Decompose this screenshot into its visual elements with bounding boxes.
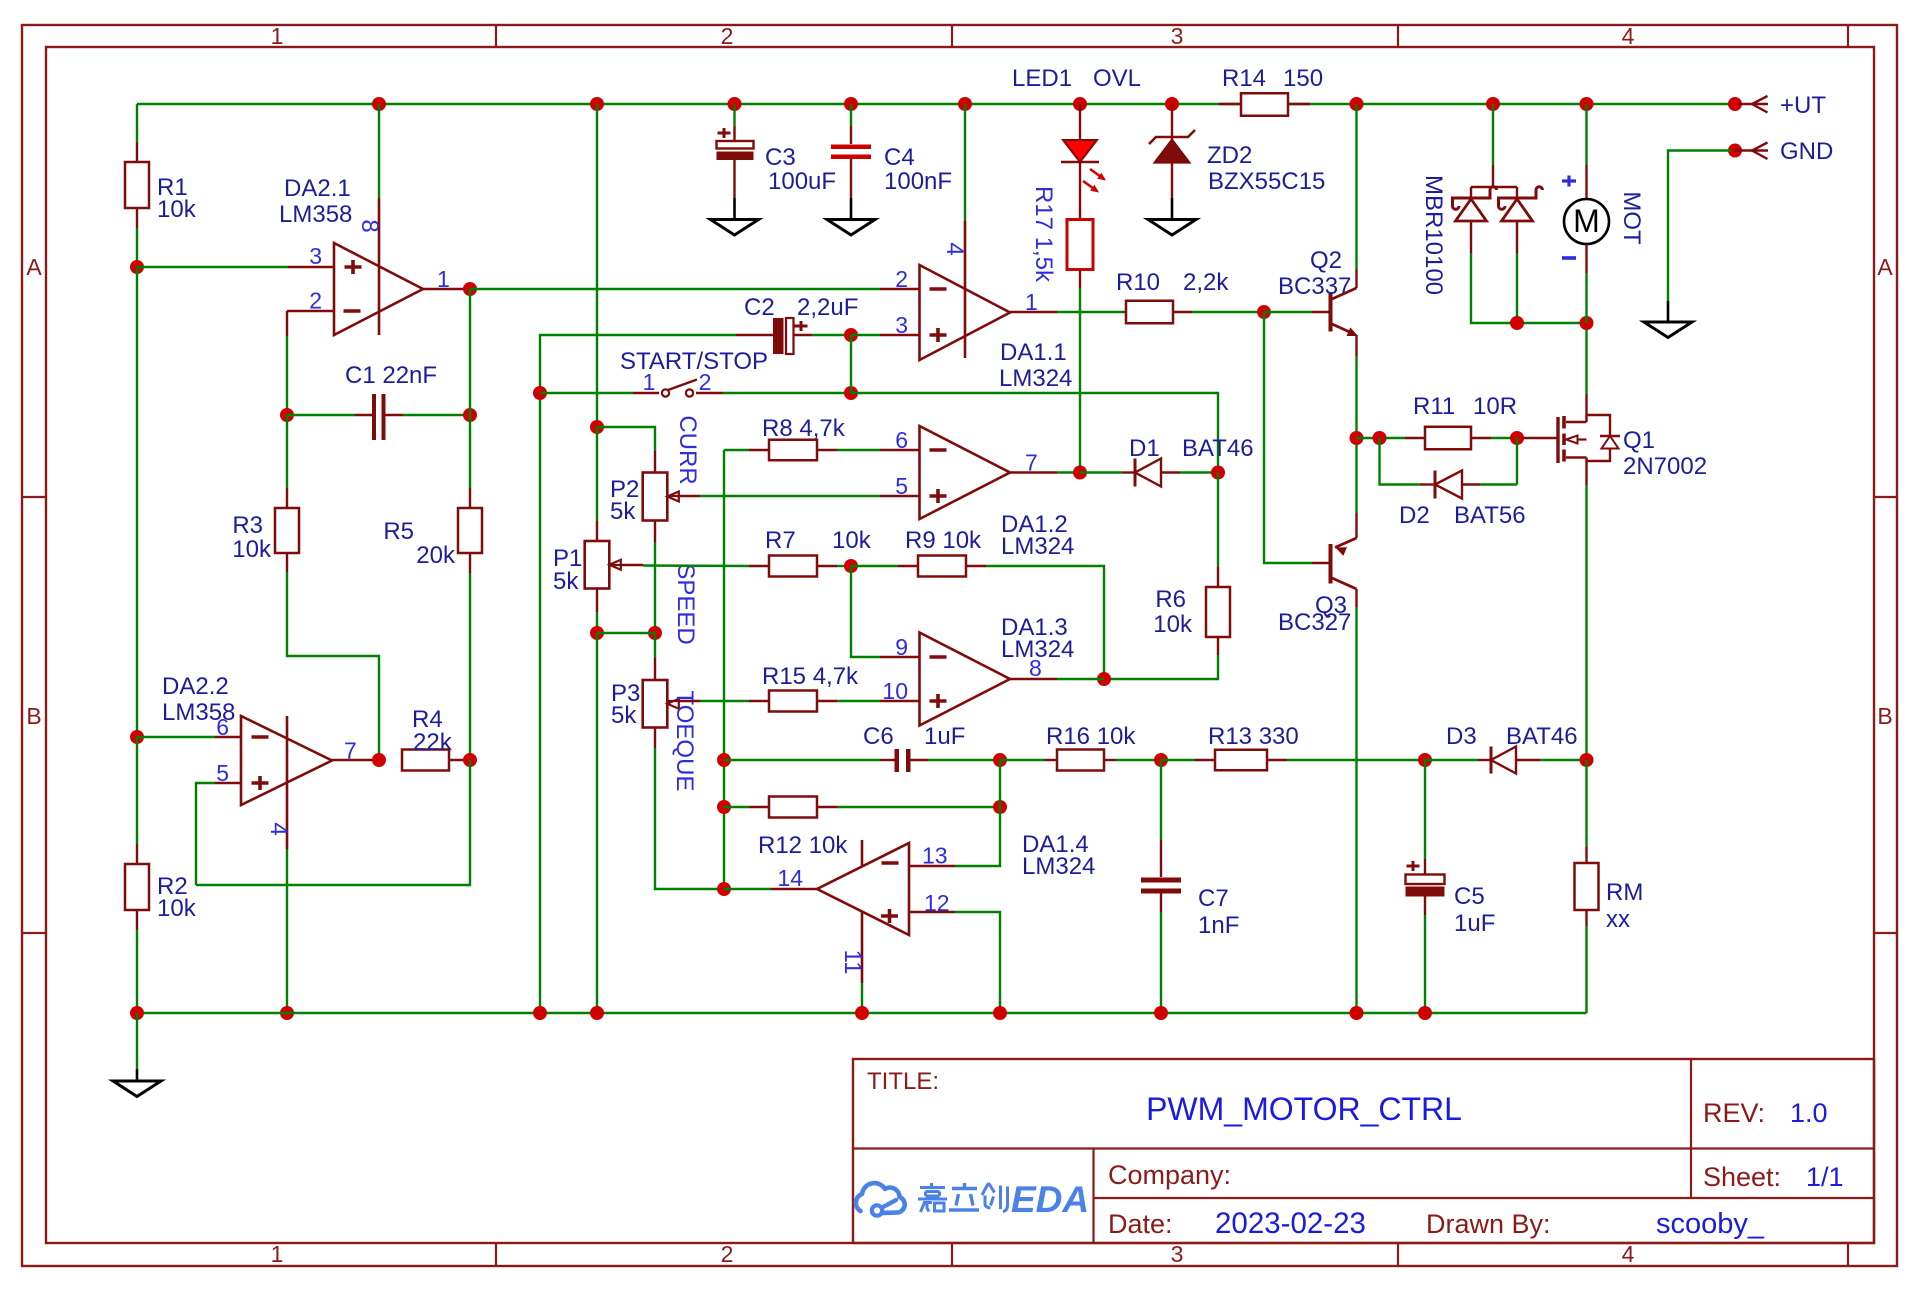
svg-text:REV:: REV: [1703,1098,1765,1128]
wire rail to C4 [850,104,852,126]
node out8 [1097,672,1111,686]
svg-text:2: 2 [721,1241,734,1267]
svg-text:BZX55C15: BZX55C15 [1208,168,1325,195]
wire C7 top [1160,760,1162,840]
svg-text:Company:: Company: [1108,1160,1231,1190]
svg-text:5: 5 [895,473,908,499]
wire R5 bottom [469,553,471,573]
svg-text:9: 9 [895,634,908,660]
svg-text:R5: R5 [383,518,414,545]
wire C6 right [911,759,929,761]
svg-text:BC337: BC337 [1278,273,1351,300]
resistor R16 [1057,750,1104,771]
node bus junctions [130,1006,144,1020]
transistor Q1 [1556,417,1559,463]
wire Q1 source [1585,458,1587,486]
svg-text:1: 1 [271,23,284,49]
svg-text:R16 10k: R16 10k [1046,723,1136,750]
capacitor C7 [1141,878,1181,883]
wire R17 down [1079,270,1081,289]
svg-text:10k: 10k [157,196,197,223]
op-amp DA1.1 [920,265,1011,360]
wire R13 right [1267,759,1287,761]
node C6 right [993,753,1007,767]
wire bus to ground [136,1013,138,1069]
wire ZD2 to ground [1171,163,1173,198]
svg-text:8: 8 [356,219,383,232]
wire R6 bottom [1217,637,1219,655]
svg-text:SPEED: SPEED [672,563,699,644]
wire R4 to pin5 loop [196,760,470,885]
svg-text:1nF: 1nF [1198,912,1239,939]
node switch right [844,386,858,400]
svg-text:R12 10k: R12 10k [758,832,848,859]
resistor RM [1575,863,1599,910]
transistor Q3 [1329,544,1333,584]
wire Q2 collector [1355,104,1357,269]
wire C2 node to switch [850,335,852,393]
svg-text:B: B [1877,703,1892,729]
wire R12 left [724,806,749,808]
wire R1 to node [136,208,138,228]
svg-text:LM324: LM324 [999,365,1072,392]
op-amp DA2.1 [334,243,423,335]
wire MBR right down [1516,221,1518,253]
svg-text:1: 1 [643,369,656,395]
node P2 branch [590,420,604,434]
wire R11 left [1357,437,1406,439]
svg-text:C1 22nF: C1 22nF [345,362,437,389]
wire R12 right [817,806,837,808]
wire C6 left [724,759,880,761]
node DA2.2 pin4 bus [280,1006,294,1020]
wire out to DA1.1 pin2 [470,288,880,290]
wire Q3 collector to bus [1355,607,1357,1013]
wire C3 to ground [733,160,735,198]
wire RM top [1585,760,1587,847]
svg-text:20k: 20k [416,542,456,569]
svg-text:2: 2 [699,369,712,395]
resistor R7 [769,556,817,577]
wire Q2 emitter [1355,356,1357,438]
potentiometer P1 [585,541,610,589]
svg-text:R17 1,5k: R17 1,5k [1030,186,1057,283]
wire D1 right [1161,471,1180,473]
wire MBR left down [1470,221,1472,253]
wire rail to P1 column [596,104,598,427]
resistor R10 [1126,301,1173,324]
svg-text:Drawn By:: Drawn By: [1426,1209,1551,1239]
node rail junctions [372,97,386,111]
node R12 left [717,800,731,814]
svg-text:CURR: CURR [674,415,701,484]
resistor R4 [402,750,449,771]
zener ZD2 [1149,130,1195,144]
svg-text:LED1: LED1 [1012,65,1072,92]
svg-text:M: M [1573,203,1600,239]
svg-text:TOEQUE: TOEQUE [671,691,698,792]
resistor R13 [1215,750,1267,771]
wire rail to LED1 [1079,104,1081,140]
resistor R8 [769,440,817,461]
svg-text:R8 4,7k: R8 4,7k [762,415,846,442]
ground main [113,1081,161,1097]
svg-text:R13 330: R13 330 [1208,723,1299,750]
svg-text:150: 150 [1283,65,1323,92]
svg-text:MOT: MOT [1618,191,1645,245]
svg-text:LM358: LM358 [279,201,352,228]
node C2 right [844,328,858,342]
svg-text:TITLE:: TITLE: [867,1068,939,1095]
wire DA2.1 pin2 [287,310,334,312]
node C1 right [463,408,477,422]
svg-text:C5: C5 [1454,883,1485,910]
svg-text:4: 4 [265,822,292,835]
wire to R13 [1161,759,1195,761]
wire left column [136,267,138,737]
wire DA1.4 pin13 [909,865,955,867]
node Q1 gate [1510,431,1524,445]
svg-text:11: 11 [839,950,866,975]
node P1 bottom [590,626,604,640]
node MBR right bottom [1510,316,1524,330]
wire R2 to bus [136,910,138,930]
LED LED1 [1063,140,1097,162]
wire R7 right [817,565,837,567]
node motor bottom [1580,316,1594,330]
wire DA2.1 out [423,288,470,290]
node C6 left [717,753,731,767]
wire DA1.3 out [1010,678,1057,680]
capacitor C6 [895,749,900,772]
svg-text:14: 14 [777,865,803,891]
wire to R2 [136,737,138,844]
svg-text:2: 2 [309,288,322,314]
node R7 R9 [844,559,858,573]
svg-text:+UT: +UT [1780,92,1826,119]
svg-text:xx: xx [1606,906,1630,933]
svg-text:GND: GND [1780,138,1833,165]
wire R4 right [449,759,470,761]
wire to R6 [1217,473,1219,568]
wire R10 right [1173,311,1192,313]
svg-text:A: A [26,254,42,280]
svg-text:1uF: 1uF [924,723,965,750]
wire DA1.4 pin11 [861,983,863,1013]
svg-text:DA2.2: DA2.2 [162,673,229,700]
svg-text:2023-02-23: 2023-02-23 [1215,1207,1366,1240]
svg-text:D2: D2 [1399,502,1430,529]
svg-text:BAT46: BAT46 [1506,723,1578,750]
svg-text:R9 10k: R9 10k [905,527,982,554]
potentiometer P2 [643,473,668,521]
wire to D1 [1080,471,1122,473]
svg-text:2: 2 [721,23,734,49]
wire DA2.1 pin3 [137,266,288,268]
wire pin3 corner [540,335,736,1013]
wire P1 top [596,427,598,521]
wire P3 bottom [654,728,656,749]
wire rail to ZD2 [1171,104,1173,140]
diode D3 [1490,747,1493,774]
wire R3 to DA2.2 out [286,553,288,572]
svg-text:10k: 10k [1153,611,1193,638]
wire to D3 [1425,759,1478,761]
transistor Q2 [1329,292,1333,332]
node D3 left [1418,753,1432,767]
node R10 right [1257,305,1271,319]
op-amp DA2.2 [241,716,332,805]
wire Q3 emitter [1355,438,1357,513]
svg-text:4: 4 [941,242,968,255]
wire R11 right [1491,437,1517,439]
svg-text:OVL: OVL [1093,65,1141,92]
wire DA1.1 pin4 [964,104,966,221]
svg-text:R7: R7 [765,527,796,554]
wire P1 bottom [596,589,598,613]
wire C7 bottom [1160,894,1162,913]
wire DA1.1 out [1010,311,1057,313]
svg-text:BAT56: BAT56 [1454,502,1526,529]
svg-text:Q2: Q2 [1310,247,1342,274]
node D2 branch [1373,431,1387,445]
wire P1 column to bus [596,633,598,1013]
op-amp DA1.2 [920,426,1011,519]
svg-text:R15 4,7k: R15 4,7k [762,663,859,690]
ground C4 [827,220,875,236]
svg-text:R11: R11 [1413,393,1455,420]
wire C5 top [1424,760,1426,859]
wire DA2.2 pin6 [137,736,215,738]
resistor R3 [275,508,299,553]
svg-text:1/1: 1/1 [1806,1162,1844,1192]
wire rail to R1 [136,104,138,142]
resistor R14 [1219,103,1241,105]
svg-text:MBR10100: MBR10100 [1420,175,1447,295]
svg-text:10k: 10k [157,895,197,922]
svg-text:5: 5 [216,760,229,786]
wire switch to node [723,392,851,394]
node R17 to out7 [1073,466,1087,480]
wire R8 corner [724,449,749,451]
wire C1 right [384,414,403,416]
wire R15 right [817,700,837,702]
titleblock frame [853,1059,1874,1243]
capacitor C2 [736,334,774,336]
node Q2 emitter R11 [1350,431,1364,445]
wire DA1.4 out [724,888,771,890]
svg-text:10k: 10k [832,527,872,554]
diode MBR10100 [1471,186,1517,188]
wire D2 loop left [1380,438,1421,485]
svg-text:D1: D1 [1129,435,1160,462]
svg-text:RM: RM [1606,879,1643,906]
svg-text:Q1: Q1 [1623,427,1655,454]
resistor R5 [458,508,482,553]
wire DA1.4 pin12 [909,911,955,913]
wire R8 right [817,449,837,451]
svg-text:ZD2: ZD2 [1207,142,1252,169]
wire DA1.2 out [1010,471,1057,473]
svg-text:R14: R14 [1222,65,1266,92]
switch START/STOP [540,392,633,394]
svg-text:6: 6 [216,714,229,740]
svg-text:1.0: 1.0 [1790,1098,1828,1128]
svg-text:Sheet:: Sheet: [1703,1162,1781,1192]
wire DA2.2 out [332,759,379,761]
wire base node to Q3 [1264,312,1312,563]
wire x724 vertical [723,450,725,889]
svg-text:C4: C4 [884,144,915,171]
node P2 bottom [648,626,662,640]
svg-text:C6: C6 [863,723,894,750]
wire rail to C3 [733,104,735,126]
svg-text:8: 8 [1029,655,1042,681]
svg-text:2: 2 [895,266,908,292]
wire P2 wiper [667,495,679,497]
svg-text:4: 4 [1622,1241,1635,1267]
capacitor C5 [1407,861,1420,871]
ground GND terminal [1667,301,1670,322]
resistor R2 [125,864,149,910]
wire pin9 branch [851,566,880,657]
wire GND net [1668,151,1731,302]
motor MOT [1585,104,1587,165]
wire switch to R6 top [851,393,1218,473]
svg-text:D3: D3 [1446,723,1477,750]
node Q1 source D3 [1580,753,1594,767]
svg-text:R10: R10 [1116,269,1160,296]
svg-text:10k: 10k [232,536,272,563]
logo JLC EDA [856,1183,905,1213]
node D1 right [1211,466,1225,480]
svg-text:DA1.1: DA1.1 [1000,339,1067,366]
resistor R17 [1067,220,1093,270]
svg-text:LM324: LM324 [1001,533,1074,560]
svg-text:scooby_: scooby_ [1656,1208,1765,1240]
wire rail to MBR [1492,104,1494,165]
svg-text:DA2.1: DA2.1 [284,175,351,202]
svg-text:EDA: EDA [1011,1179,1089,1220]
node DA2.2 in6 [130,730,144,744]
resistor R9 [918,556,966,577]
wire C4 to ground [850,159,852,198]
wire D2 loop right [1462,483,1480,485]
svg-text:B: B [26,703,41,729]
op-amp DA1.4 [817,843,909,935]
svg-text:5k: 5k [610,498,636,525]
wire R16 right [1104,759,1116,761]
wire C1 left [287,414,355,416]
node DA1.4 out [717,882,731,896]
svg-text:R6: R6 [1155,586,1186,613]
wire P1 wiper [609,564,621,566]
wire P2 bottom [654,521,656,543]
svg-text:4: 4 [1622,23,1635,49]
wire C6 to R12 node [999,760,1001,807]
wire P1-P2 bottoms [597,632,655,634]
svg-text:C2: C2 [744,294,775,321]
resistor R11 [1405,437,1425,439]
svg-text:PWM_MOTOR_CTRL: PWM_MOTOR_CTRL [1146,1091,1462,1127]
svg-text:LM324: LM324 [1022,853,1095,880]
resistor R1 [125,162,149,208]
wire DA2.2 pin4 to bus [286,849,288,1013]
terminal GND [1728,144,1742,158]
node DA2.2 out [372,753,386,767]
svg-text:1: 1 [271,1241,284,1267]
svg-text:3: 3 [895,312,908,338]
ground ZD2 [1148,220,1196,236]
node DA2.1 out [463,282,477,296]
wire R9 right [966,565,986,567]
wire DA2.2 pin5 [196,783,215,885]
op-amp DA1.3 [920,633,1011,726]
diode D2 [1434,471,1437,499]
svg-text:A: A [1877,254,1893,280]
wire D3 right [1516,759,1540,761]
wire DA2.1 pin8 [378,104,380,198]
svg-text:13: 13 [922,843,948,869]
resistor R15 [769,691,817,712]
svg-text:22k: 22k [413,729,453,756]
svg-text:C7: C7 [1198,885,1229,912]
svg-text:10R: 10R [1473,393,1517,420]
node R4 right [463,753,477,767]
svg-text:BAT46: BAT46 [1182,435,1254,462]
svg-text:100nF: 100nF [884,168,952,195]
wire gate [1521,437,1557,439]
wire to Q2 base [1264,311,1312,313]
node switch branch [533,386,547,400]
diode D1 [1134,459,1137,487]
wire Q1 drain [1585,394,1587,422]
ground C3 [711,220,759,236]
wire ground bus [137,1012,1587,1014]
svg-text:2,2uF: 2,2uF [797,294,858,321]
wire LED1 to R17 [1079,162,1081,220]
border ticks [495,25,497,47]
wire C1 to R3 [286,415,288,488]
svg-text:5k: 5k [553,568,579,595]
svg-text:1uF: 1uF [1454,910,1495,937]
svg-text:5k: 5k [611,702,637,729]
wire P3 top [654,633,656,658]
wire +UT rail [137,103,1739,105]
node R16 right [1154,753,1168,767]
resistor R12 [769,797,817,818]
node R1 bottom [130,260,144,274]
wire P3 wiper [667,700,679,702]
svg-text:C3: C3 [765,144,796,171]
terminal +UT [1739,103,1768,106]
wire C5 bottom [1424,897,1426,916]
wire C2 to pin3 [851,334,880,336]
svg-text:3: 3 [1171,1241,1184,1267]
svg-text:3: 3 [1171,23,1184,49]
svg-text:Date:: Date: [1108,1209,1173,1239]
svg-text:2N7002: 2N7002 [1623,453,1707,480]
svg-text:3: 3 [309,243,322,269]
potentiometer P3 [643,680,668,728]
capacitor C3 [718,128,731,138]
wire branch to P2 [597,427,655,451]
node R12 right [993,800,1007,814]
resistor R6 [1206,587,1230,637]
svg-text:100uF: 100uF [768,168,836,195]
wire to R16 [1000,759,1045,761]
svg-text:R3: R3 [232,512,263,539]
